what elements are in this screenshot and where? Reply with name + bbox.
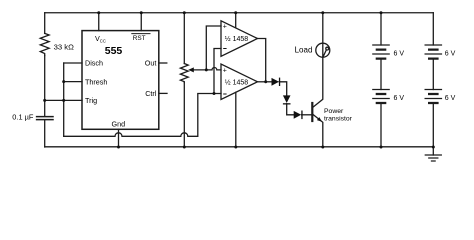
ground symbol: [432, 147, 434, 155]
RST overline: [132, 33, 150, 35]
wire Vcc pin stub: [98, 13, 100, 31]
op-amp U1a triangle (1/2 1458 top): [221, 21, 258, 57]
wire U1a output: [258, 39, 266, 82]
node dot outputs join: [264, 80, 267, 83]
wire U1b output: [258, 81, 272, 83]
svg-text:½ 1458: ½ 1458: [225, 35, 248, 43]
svg-text:6 V: 6 V: [445, 51, 456, 58]
wire U1a V+ stub: [235, 13, 237, 28]
potentiometer zigzag: [180, 64, 188, 83]
battery B3 right stack leads: [432, 13, 434, 147]
label U1b minus: [223, 93, 226, 95]
load inner pointer: [323, 50, 326, 56]
label U1a minus: [223, 48, 226, 50]
svg-text:6 V: 6 V: [394, 95, 405, 102]
transistor emitter arrowhead: [317, 117, 322, 122]
wire resistor to capacitor: [44, 56, 46, 117]
wire U1b V- stub: [235, 92, 237, 147]
node dot battery left on bottom bus: [380, 146, 383, 149]
svg-text:6 V: 6 V: [394, 51, 405, 58]
node dot battery left on top bus: [380, 11, 383, 14]
wire Ctrl pin stub: [159, 92, 167, 94]
svg-text:555: 555: [105, 45, 123, 57]
node dot wiper to U1a +: [205, 68, 208, 71]
potentiometer top lead: [183, 13, 185, 64]
node dot Vcc on top bus: [97, 11, 100, 14]
svg-text:0.1 µF: 0.1 µF: [12, 112, 34, 121]
node dot Trig tie: [62, 99, 65, 102]
wire capacitor to bottom bus: [44, 120, 46, 147]
op-amp U1b triangle (1/2 1458 bottom): [221, 64, 258, 100]
wire ground return with hops over Gnd stub and pot lead: [64, 94, 221, 137]
node dot pot on bottom bus: [183, 146, 186, 149]
svg-text:Thresh: Thresh: [85, 77, 107, 86]
wire U1a + input: [206, 26, 221, 70]
svg-text:+: +: [223, 23, 227, 30]
wire D2 to base wire: [287, 104, 294, 115]
node dot U1b V- on bottom bus: [234, 146, 237, 149]
wire Disch stub: [64, 62, 82, 64]
op-amp / IC 555 box: [82, 31, 159, 130]
node dot emitter on bottom bus: [321, 146, 324, 149]
wire top supply bus: [45, 12, 434, 14]
potentiometer wiper wire with hop over minus wire: [192, 68, 221, 70]
battery B2 cell plates 6V lower left: [373, 90, 389, 99]
wire RST pin stub: [140, 13, 142, 31]
battery B4 cell plates 6V lower right: [425, 90, 441, 99]
potentiometer bottom lead: [183, 83, 185, 148]
wire bottom bus: [45, 146, 434, 148]
load inner knob circle: [326, 47, 329, 50]
svg-text:6 V: 6 V: [445, 95, 456, 102]
node dot minus inputs join: [213, 92, 216, 95]
battery B1 left stack leads: [380, 13, 382, 147]
wire Thresh stub: [64, 81, 82, 83]
svg-text:Ctrl: Ctrl: [145, 89, 157, 98]
wire U1a - input: [214, 49, 221, 94]
resistor R 33 kOhm: [40, 33, 49, 55]
svg-text:Out: Out: [145, 59, 157, 68]
node dot U1a V+ on top bus: [234, 11, 237, 14]
battery B3 cell plates 6V upper right: [425, 45, 441, 54]
svg-text:Disch: Disch: [85, 59, 103, 68]
wire diode D1 to corner: [279, 82, 286, 96]
svg-text:RST: RST: [133, 35, 146, 42]
transistor Q1 base bar: [311, 103, 313, 121]
transistor Q1 emitter: [313, 114, 323, 147]
potentiometer wiper arrowhead: [188, 67, 194, 72]
svg-text:VCC: VCC: [95, 34, 106, 44]
load lamp circle: [316, 43, 330, 57]
svg-text:Power: Power: [324, 108, 344, 115]
node dot RST on top bus: [140, 11, 143, 14]
wire D3 to transistor base: [302, 114, 312, 116]
wire Gnd pin stub: [118, 129, 120, 147]
node dot Gnd on bottom bus: [117, 146, 120, 149]
node dot load on top bus: [321, 11, 324, 14]
capacitor C 0.1 uF: [37, 117, 53, 120]
svg-text:+: +: [223, 67, 227, 74]
wire Trig stub to left branch: [45, 99, 82, 101]
diode D1: [272, 78, 280, 86]
node dot ground junction: [432, 146, 435, 149]
wire Disch-Thresh-Trig tie vertical: [63, 63, 65, 136]
wire left branch top lead: [44, 13, 46, 34]
svg-text:Load: Load: [295, 45, 313, 54]
svg-text:½ 1458: ½ 1458: [225, 78, 248, 86]
svg-text:Gnd: Gnd: [112, 119, 126, 128]
node dot Thresh tie: [62, 80, 65, 83]
node dot Trig left wire: [43, 99, 46, 102]
svg-text:33 kΩ: 33 kΩ: [54, 42, 75, 51]
transistor Q1 collector: [313, 13, 323, 107]
diode D3: [294, 111, 302, 119]
node dot pot on top bus: [183, 11, 186, 14]
battery B1 cell plates 6V upper left: [373, 45, 389, 54]
svg-text:transistor: transistor: [324, 116, 353, 123]
diode D2: [283, 95, 291, 103]
svg-text:Trig: Trig: [85, 96, 97, 105]
wire Out pin stub: [159, 62, 167, 64]
